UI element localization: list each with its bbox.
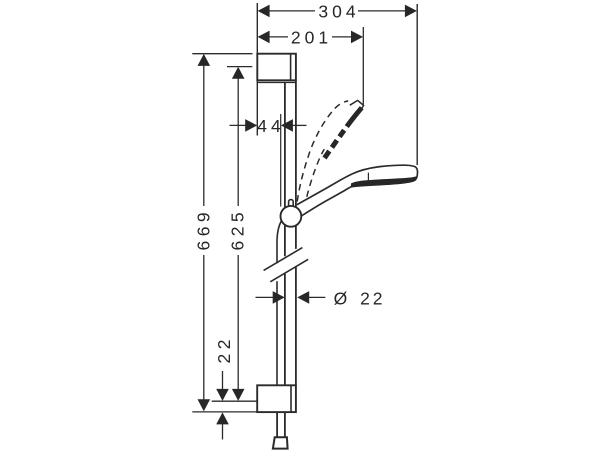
shower hose [277,221,285,437]
dimension 669 [193,54,213,411]
dashed hand shower raised: left edge [297,101,348,202]
hand shower body (solid, horizontal) [297,165,418,216]
extension line right of dim 201 [362,27,364,105]
dashed hand shower raised: head tip cap [350,100,364,108]
slider knob [281,206,302,227]
dimension 22 bottom left [214,335,234,439]
dimension 201 [258,27,363,47]
svg-text:625: 625 [228,208,248,251]
extension line 625 top [227,66,252,68]
svg-text:22: 22 [360,289,385,309]
wall bar (rail) [285,80,296,385]
break symbol [264,248,309,282]
svg-text:Ø: Ø [334,289,348,309]
slider knob tab [289,200,294,209]
bottom bracket [257,385,296,412]
dashed hand shower raised: right edge lower [307,149,325,197]
dimension Ø22 [256,289,386,309]
extension line right of dim 304 [416,4,418,165]
wall plane extension line [256,3,258,136]
svg-text:44: 44 [257,116,284,136]
svg-text:201: 201 [291,27,332,47]
dashed hand shower raised: spray edge thick dashes [325,108,362,158]
dimension 44 [230,114,307,207]
svg-text:304: 304 [318,1,359,21]
svg-text:22: 22 [214,335,234,363]
extension line 669 top [192,53,252,55]
extension line 669 bottom [192,411,257,413]
svg-text:669: 669 [193,208,213,251]
top bracket [257,54,296,83]
dimension 304 [258,1,417,21]
extension line 625/22 bottom [212,400,257,402]
hose end fitting [273,437,288,448]
dimension 625 [228,67,248,401]
